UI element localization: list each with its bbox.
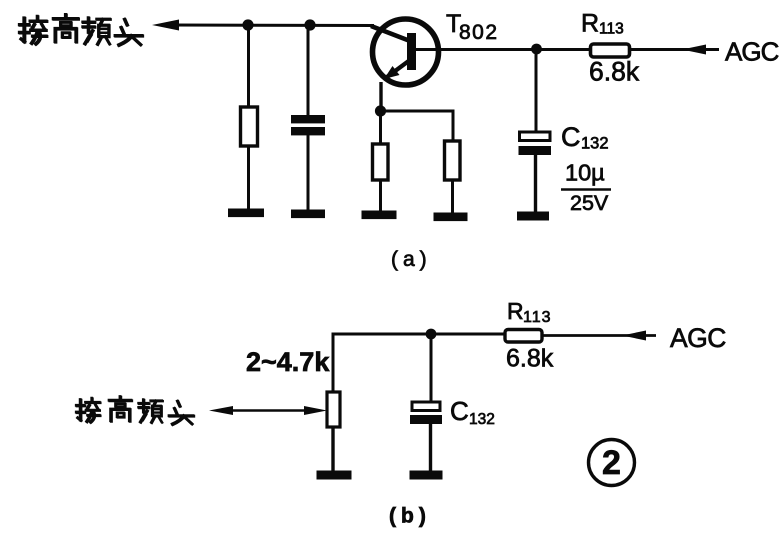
junction dot: emitter node: [375, 105, 386, 116]
svg-text:6.8k: 6.8k: [506, 345, 554, 373]
svg-text:2: 2: [602, 444, 621, 482]
svg-text:10µ: 10µ: [565, 160, 605, 186]
wire: top rail (b) with corner down to pot: [333, 334, 506, 392]
wire: R2 to ground: [379, 180, 382, 213]
arrowhead: AGC input (a): [682, 45, 706, 55]
resistor R113: [591, 44, 630, 57]
ground: under R3: [434, 213, 468, 222]
svg-text:113: 113: [523, 309, 552, 326]
svg-text:AGC: AGC: [670, 323, 726, 353]
label: net 接高频头 (to RF tuner head), circuit (a): [20, 15, 143, 46]
resistor R3 (emitter, right): [445, 141, 461, 180]
junction dot: node (b): [426, 329, 437, 340]
svg-text:C: C: [561, 122, 581, 152]
svg-text:C: C: [450, 396, 469, 426]
svg-text:113: 113: [599, 21, 624, 38]
capacitor C132 (a), negative plate (solid): [519, 146, 552, 155]
svg-text:802: 802: [459, 21, 499, 44]
wire: down to C1: [307, 25, 310, 117]
label: R113: [581, 10, 624, 38]
ground: under R2: [362, 211, 397, 220]
wire: emitter node down to R2: [379, 111, 382, 145]
transistor T802: body circle: [373, 19, 439, 85]
wire: C1 to ground: [307, 135, 310, 212]
arrowhead: right (to pot): [304, 406, 327, 415]
fraction bar of 10µ/25V: [561, 188, 611, 191]
wire: emitter node to right branch: [380, 111, 453, 142]
wire: C132 to ground: [534, 155, 537, 214]
junction dot: C1 branch: [304, 19, 315, 30]
wire: R1 to ground: [247, 146, 250, 211]
ground: under C132 (a): [517, 212, 549, 221]
wire: node to R113: [536, 48, 592, 51]
wire: top rail (a): [172, 24, 374, 28]
ground: under pot: [317, 471, 352, 480]
junction dot: collector / C132 / R113 node: [531, 44, 542, 55]
wire: R113 (b) to AGC arrow: [542, 334, 656, 337]
label: net 接高频头 (to RF tuner head), circuit (b): [76, 397, 193, 425]
wire: emitter down to emitter node: [379, 82, 382, 112]
wire: C132 (b) to ground: [429, 424, 432, 473]
ground: under C132 (b): [410, 471, 443, 480]
arrowhead: AGC input (b): [622, 331, 646, 341]
capacitor C1 (bypass, plate 1): [291, 115, 325, 123]
wire: node down to C132 (b): [430, 334, 433, 403]
arrowhead: left (to tuner): [209, 406, 233, 415]
svg-text:R: R: [507, 298, 524, 324]
svg-text:(a): (a): [391, 248, 432, 271]
svg-text:6.8k: 6.8k: [589, 57, 640, 87]
label: T802: [446, 10, 499, 44]
transistor T802: base bar: [407, 33, 416, 70]
transistor T802: emitter arrowhead: [384, 66, 400, 79]
svg-text:(b): (b): [389, 505, 431, 528]
capacitor C132 (b), positive plate (hollow): [412, 402, 440, 411]
arrow: tuner tap, double headed: [218, 409, 318, 412]
resistor R2 (emitter, left): [373, 144, 389, 180]
svg-text:R: R: [581, 10, 599, 38]
capacitor C132 (b), negative plate (solid): [410, 415, 442, 424]
figure number badge: circle: [589, 440, 635, 486]
arrowhead: output to tuner (a): [152, 20, 179, 31]
label: C132 (b): [450, 396, 495, 428]
wire: pot to ground: [331, 427, 334, 474]
ground: under C1: [291, 210, 325, 219]
transistor T802: base lead diagonal: [371, 26, 410, 41]
potentiometer 2-4.7k body: [327, 392, 340, 427]
label: C132 (a): [561, 122, 609, 153]
svg-text:25V: 25V: [570, 191, 609, 215]
wire: down to R1: [247, 25, 250, 108]
wire: R113 to AGC arrow: [629, 48, 719, 51]
wire: R3 to ground: [451, 180, 454, 215]
capacitor C1 (plate 2): [291, 127, 325, 135]
svg-text:132: 132: [469, 411, 495, 428]
junction dot: R1 branch: [242, 19, 253, 30]
svg-text:132: 132: [581, 135, 609, 153]
svg-text:2~4.7k: 2~4.7k: [246, 347, 330, 377]
transistor T802: emitter diagonal: [387, 60, 410, 77]
resistor R1: [241, 107, 258, 146]
wire: collector to AGC node: [414, 48, 537, 51]
svg-text:AGC: AGC: [725, 37, 779, 67]
wire: AGC node down to C132: [535, 49, 538, 134]
resistor R113 (b): [505, 330, 542, 343]
ground: under R1: [228, 209, 264, 218]
label: R113 (b): [507, 298, 552, 326]
capacitor C132 (a), positive plate (hollow): [520, 132, 551, 141]
